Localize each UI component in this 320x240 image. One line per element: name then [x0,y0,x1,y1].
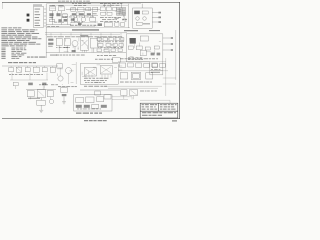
sub board enclosure [74,95,112,111]
capacitor C27 [144,63,150,67]
title block divider horizontal [140,110,178,112]
wire top rail 2 [52,4,128,6]
module M1 labels [143,22,150,25]
connector J1 label [33,4,42,7]
wire BL drop1 [40,98,42,100]
wire top border [2,1,180,3]
transistor Q7 [58,76,63,81]
capacitor C16 [42,68,47,72]
wire drop mB4 [121,37,123,49]
capacitor C29 [78,23,82,25]
capacitor bank CB1 [98,43,123,46]
title text A2 [142,106,156,109]
wire BL drop4 [30,97,32,100]
node label cluster A [47,25,59,28]
label A2 [54,21,64,24]
resistor R12 [145,47,150,50]
IC U8 [100,66,112,74]
wire vertical bus A [45,4,47,28]
wire mid bus upper [45,32,127,34]
wire drop B1 [75,11,77,17]
title text A1 [142,103,157,106]
mid B extra labels 2 [98,46,123,49]
resistor R11 value [48,45,53,48]
wire BL drop2 [40,105,42,110]
wire LL drop3 [46,73,48,80]
wire top rail [46,3,141,5]
resistor bank RN1 [97,38,124,41]
connector J1 pin labels [35,9,41,26]
wire LL gdrop2 [43,85,45,88]
notes text block [1,27,41,46]
wire right border [178,2,180,119]
section title mid [72,29,99,30]
terminal TP5 [171,43,173,45]
value labels TQ [58,85,77,88]
resistor R21 [128,63,134,67]
wire CB stub1 [118,65,122,67]
wire left border stub [1,2,3,9]
label row C1 [100,16,121,19]
wire B rail1 [66,8,100,10]
resistor R10 [48,39,53,41]
resistor R9 [142,11,148,14]
value labels power [128,56,142,59]
diode bank DB1 [97,49,122,52]
resistor R14 [28,83,33,86]
ground GND1 [39,110,43,112]
wires cluster B fill [70,7,98,26]
relay K1 [50,7,56,11]
resistor R6 [90,17,96,21]
value labels mid A [56,54,85,57]
capacitor C5 [93,7,98,11]
wire drop mB2 [107,37,109,44]
wires cluster C fill [99,9,126,26]
wire drop mB1 [99,37,101,44]
wire LL drop1 [11,73,13,80]
mounting pad P2 [27,19,30,22]
wire RM rail2 [118,70,168,72]
wire LL rail 2 [10,79,48,81]
sub board text inner [77,108,101,111]
mid A pin labels [56,46,70,49]
title block divider vertical [158,103,160,111]
capacitor C17 [42,83,46,86]
wire drop A3 [67,16,69,24]
connector J2 [112,58,120,62]
board text row 3 [85,81,105,84]
diode D3 [92,104,99,108]
wire drop C2 [109,4,111,7]
wire mid bus lower [45,34,120,36]
wire BS drop [63,96,65,101]
label row C3 [100,20,119,23]
capacitor C28 [146,73,153,79]
wire bottom border [2,118,180,120]
resistor R5 value [93,12,97,15]
capacitor C11 [64,38,70,45]
power right labels [151,68,160,71]
capacitor C12 [128,46,133,49]
capacitor C1 value [49,16,53,19]
capacitor C32 [64,19,68,22]
title block frame [140,103,178,118]
resistor R2 [49,19,54,21]
inductor L1 [33,67,39,72]
sheet number [172,120,177,121]
wire SB riser [131,97,133,100]
transistor Q5 [72,41,78,47]
wire stub S2 [152,16,158,18]
capacitor C24 [97,97,104,102]
resistor R25 [72,50,76,52]
capacitor C25 [101,105,107,108]
wire cluster A rail [46,24,71,26]
power section label 2 [149,29,160,32]
terminal TP2 [158,17,161,19]
value labels mid B [97,54,116,57]
bridge rectifier BR1 [140,36,148,41]
title text C1 [142,111,176,114]
capacitor C9 [136,22,142,25]
resistor R1 [62,14,67,16]
transistor Q1 [73,17,77,21]
power bottom labels [151,71,160,74]
transistor Q4 [143,17,147,21]
power small parts [151,53,161,56]
wire module M1 feed [141,4,143,8]
wire drop C4 [127,4,129,28]
wire BL drop3 [49,97,51,100]
net label top B2 [74,4,86,7]
wire vertical bus B [45,28,47,58]
ground GND2 [62,102,66,104]
diode D5 [152,64,157,68]
wire CB stub2 [118,69,122,71]
wires J1 to bus [44,9,46,26]
wire power bottom rail [150,70,163,72]
LL value labels [9,73,43,76]
resistor R24 [98,23,102,26]
value labels cluster B [70,24,96,27]
wires mid A fill [64,38,88,52]
IC U3 [80,37,88,50]
IC U3 label [80,34,88,37]
wires LL comp feeds [11,66,53,67]
wire RM stub2 [163,83,176,85]
capacitor C15 [25,68,30,72]
wire drop mA4 [83,50,85,52]
wire RM vertical right [165,58,167,96]
mid B extra labels [98,40,124,43]
transformer T1 [78,7,84,11]
mid B drops [101,46,121,52]
power section label [124,30,138,31]
IC U6 [37,90,45,98]
wires TQ fill [57,65,76,85]
wire drop C1 [103,4,105,7]
resistor R18 [76,105,82,108]
resistor R16 [62,94,67,96]
wire stub S3 [152,21,158,23]
resistor R20 [120,63,126,67]
wire SB out2 [112,98,128,100]
footnote text [84,120,107,121]
wire mid A rail [46,51,126,53]
capacitor C19 [47,91,53,97]
board label below [84,85,107,88]
wire RM stub1 [163,77,176,79]
bus pin labels [47,35,122,38]
resistor R5 [87,13,91,15]
resistor R4 [79,13,84,15]
board pin ticks [86,74,111,77]
capacitor C1 [49,13,53,16]
wire drop B3 [91,11,93,17]
transistor Q2 [81,17,85,21]
board text row 1 [84,77,108,80]
wire cable loop [60,25,95,28]
wire drop B2 [83,11,85,17]
wire RM top rail [118,61,166,63]
transformer T3 [131,72,141,79]
module M1 enclosure [133,8,153,28]
label RM row [120,57,158,60]
capacitor C3 [71,8,76,12]
label BL2 [51,83,58,86]
resistor R19 [84,105,90,108]
connector J3 [104,95,111,99]
capacitor C11 value [64,46,69,49]
relay K2 [58,7,64,11]
oscillator Y2 [76,98,84,103]
capacitor C4 [86,8,91,11]
pin labels B [62,16,94,19]
capacitor C18 [27,91,34,97]
wire drop mA1 [58,46,60,53]
wire RM drop1 [123,96,125,99]
speckle C [115,18,128,22]
wire drop A1 [52,11,54,25]
transistor Q6 [66,68,72,74]
resistor R3 [72,13,76,15]
capacitor C13 [136,46,142,50]
wire LL drop2 [29,73,31,80]
capacitor C20 [61,88,68,93]
transistor Q8 [49,99,53,103]
label BL [39,83,48,86]
wire stub P3 [163,49,171,51]
resistor R23 [71,18,75,20]
wire stub P2 [163,43,171,45]
resistor R17 [57,64,63,68]
title text B2 [160,106,174,109]
sub board label [76,113,102,114]
capacitor C6 [100,7,105,11]
wire drop mA5 [93,48,95,52]
wire B rail3 [70,22,96,24]
wire TQ drop2 [68,74,70,85]
resistor R13 [154,46,159,49]
net label top C2 [103,4,119,7]
oscillator Y1 [104,22,112,26]
resistor R8 [107,12,112,15]
capacitor C10 [56,38,62,45]
relay K1 label [49,4,55,7]
varistor RV1 [16,67,21,72]
wire right inner vertical [175,30,177,80]
power text inner [128,58,143,61]
main board enclosure [80,64,118,84]
wires cluster A fill [50,7,67,20]
wire drop A2 [60,11,62,25]
wire drop mA3 [74,47,76,53]
section heading LL2 [8,61,36,64]
capacitor C7 [106,7,111,11]
wire TQ drop3 [75,62,77,84]
board text row 2 [84,79,107,82]
resistor R7 [101,12,106,15]
IC U4 [90,38,97,48]
net label top C1 [100,2,122,5]
wire drop mB3 [115,37,117,44]
wire BL rail [26,88,56,90]
terminal TP6 [171,49,173,51]
wire LL rail [2,65,58,67]
section heading LL1 [27,56,46,59]
wire stub P1 [163,37,171,39]
IC U1 hatched [117,7,126,15]
resistor R22 [160,63,166,67]
wire drop mA2 [66,46,68,53]
capacitor C14 [9,68,14,72]
trimmer VR2 [95,91,101,95]
power module enclosure [126,34,162,75]
wire RM pair2 [108,87,158,89]
wires mid B fill [97,38,120,54]
regulator VR1 [37,100,45,105]
mid A pin ticks [82,48,92,52]
IC U2 shaded [134,11,140,15]
wire C rail [46,27,130,29]
label QB [71,21,83,24]
title text A3 [142,108,157,111]
wire B rail2 [70,14,98,16]
wire TQ drop1 [59,68,61,76]
diode D4 [152,63,158,67]
wire RM drop2 [133,96,135,99]
terminal TP1 [158,12,161,14]
capacitor C26 [136,63,142,67]
wire drop C3 [120,4,122,8]
relay K2 label [58,4,64,7]
net label CB [95,58,113,61]
net label top B1 [72,2,91,5]
wire BL rise [42,86,44,90]
connector J1 [33,7,44,28]
IC U7 [84,68,96,76]
transistor Q3 [136,17,140,21]
bus tick marks [51,33,121,36]
mounting pad P1 [27,14,30,17]
title text B1 [160,103,177,106]
legend list [1,48,26,59]
wire title feed drop [169,100,171,103]
capacitor C8 [112,8,116,11]
fuse F1 [50,67,55,72]
diode D1 [58,19,61,22]
terminal TP4 [171,37,173,39]
wire LL gdrop1 [15,86,17,89]
resistor R1 value [62,16,67,19]
IC U5 shaded [130,38,136,44]
wire RM pair1 [104,85,162,87]
capacitor C22 [130,89,138,95]
wire title feed [140,99,170,101]
label row C2 [102,18,117,21]
wire CB rail [80,89,120,91]
value labels mid A2 [50,54,57,57]
RM value labels [120,81,152,84]
capacitor C31 [120,23,124,26]
BL value labels [28,97,40,100]
resistor R11 [48,43,53,45]
diode D2 [13,82,18,85]
capacitor C2 [56,13,60,16]
drawing number top [58,0,90,3]
IC U9 [86,97,94,103]
wire stub S1 [152,12,158,14]
terminal TP3 [158,21,161,23]
wire SB out1 [112,96,132,98]
wires board fill [82,65,117,82]
title text C2 [142,114,162,117]
relay K3 [120,73,128,79]
capacitor C30 [115,23,119,26]
wires power fill [130,38,161,56]
transformer T2 [140,50,146,55]
capacitor C21 [121,90,127,96]
RM value labels 2 [140,90,157,93]
title text B3 [160,108,176,111]
